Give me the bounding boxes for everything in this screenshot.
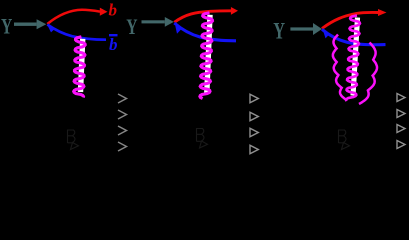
svg-text:Y: Y <box>126 16 137 40</box>
svg-text:Y: Y <box>273 19 285 44</box>
svg-text:b: b <box>109 1 118 20</box>
svg-text:b: b <box>109 35 118 54</box>
svg-text:Y: Y <box>1 15 12 39</box>
